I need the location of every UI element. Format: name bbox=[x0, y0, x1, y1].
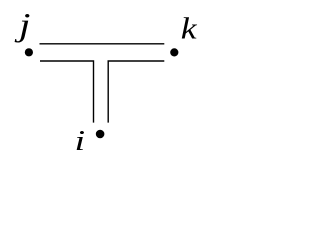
svg-text:i: i bbox=[75, 125, 86, 157]
svg-text:k: k bbox=[181, 12, 198, 46]
